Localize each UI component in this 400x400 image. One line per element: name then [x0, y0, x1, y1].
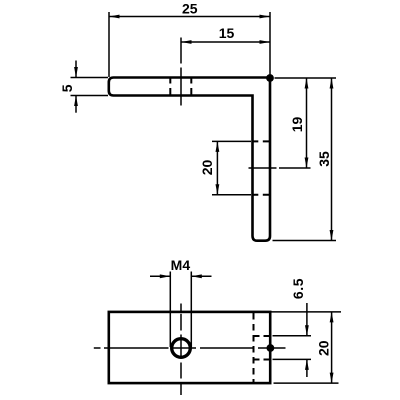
- svg-text:6.5: 6.5: [290, 278, 306, 299]
- dimension line 15: [181, 41, 270, 43]
- dimension line 35: [331, 78, 333, 241]
- corner reference dot (side view): [266, 74, 274, 82]
- side view L-bracket outline: [109, 78, 270, 241]
- centerline vertical (bottom view): [180, 304, 182, 312]
- centerline hole vertical (side view): [180, 38, 182, 64]
- extension line M4 left tangent: [169, 272, 171, 348]
- dimension line 19: [306, 78, 308, 168]
- svg-text:15: 15: [219, 25, 235, 41]
- svg-text:20: 20: [316, 340, 332, 356]
- extension line bottom of leg (y=240.5): [273, 240, 337, 242]
- svg-text:35: 35: [316, 151, 332, 167]
- extension line slot lower (right of leg, y=359.4): [273, 358, 312, 360]
- bottom view rectangle outline: [109, 312, 270, 383]
- dimension line 6.5 (arrows outside): [306, 303, 308, 336]
- extension line left of dim 25: [108, 12, 110, 77]
- corner reference dot (bottom view): [267, 344, 275, 352]
- svg-text:20: 20: [199, 160, 215, 176]
- extension line right of dims 25/15: [269, 12, 271, 78]
- centerline horizontal (bottom view): [94, 347, 101, 349]
- extension line rect top right (y=311.9): [272, 311, 342, 313]
- hidden line slot upper edge (side view): [252, 140, 271, 142]
- svg-text:M4: M4: [171, 257, 191, 273]
- hidden line hole right edge (side view): [190, 77, 192, 97]
- svg-text:19: 19: [289, 117, 305, 133]
- extension line top right (y=78): [275, 77, 337, 79]
- extension line slot upper (right of leg, y=335.7): [273, 335, 312, 337]
- extension line rect bottom right (y=383.1): [274, 382, 339, 384]
- svg-text:5: 5: [59, 84, 75, 92]
- dimension M4 (arrows outside): [150, 275, 170, 277]
- hidden line inner face of leg (bottom view): [253, 313, 255, 382]
- M4 hole circle (bottom view): [172, 339, 191, 358]
- extension lines of dim 5: [71, 77, 109, 79]
- dimension line 25: [109, 16, 270, 18]
- dimension line 5 (arrows outside): [75, 61, 77, 78]
- extension line slot center (y=168): [279, 167, 311, 169]
- dimension line 20 (side view): [216, 141, 218, 194]
- centerline slot horizontal (side view): [249, 167, 277, 169]
- hidden line slot lower edge (bottom view): [254, 359, 271, 361]
- extension lines of dim 20 (side view slot): [212, 140, 251, 142]
- hidden line slot upper edge (bottom view): [254, 335, 271, 337]
- dimension line 20 (bottom view right): [331, 312, 333, 383]
- svg-text:25: 25: [182, 1, 198, 17]
- hidden line slot lower edge (side view): [252, 194, 271, 196]
- hidden line hole left edge (side view): [169, 77, 171, 97]
- extension line M4 right tangent: [190, 272, 192, 348]
